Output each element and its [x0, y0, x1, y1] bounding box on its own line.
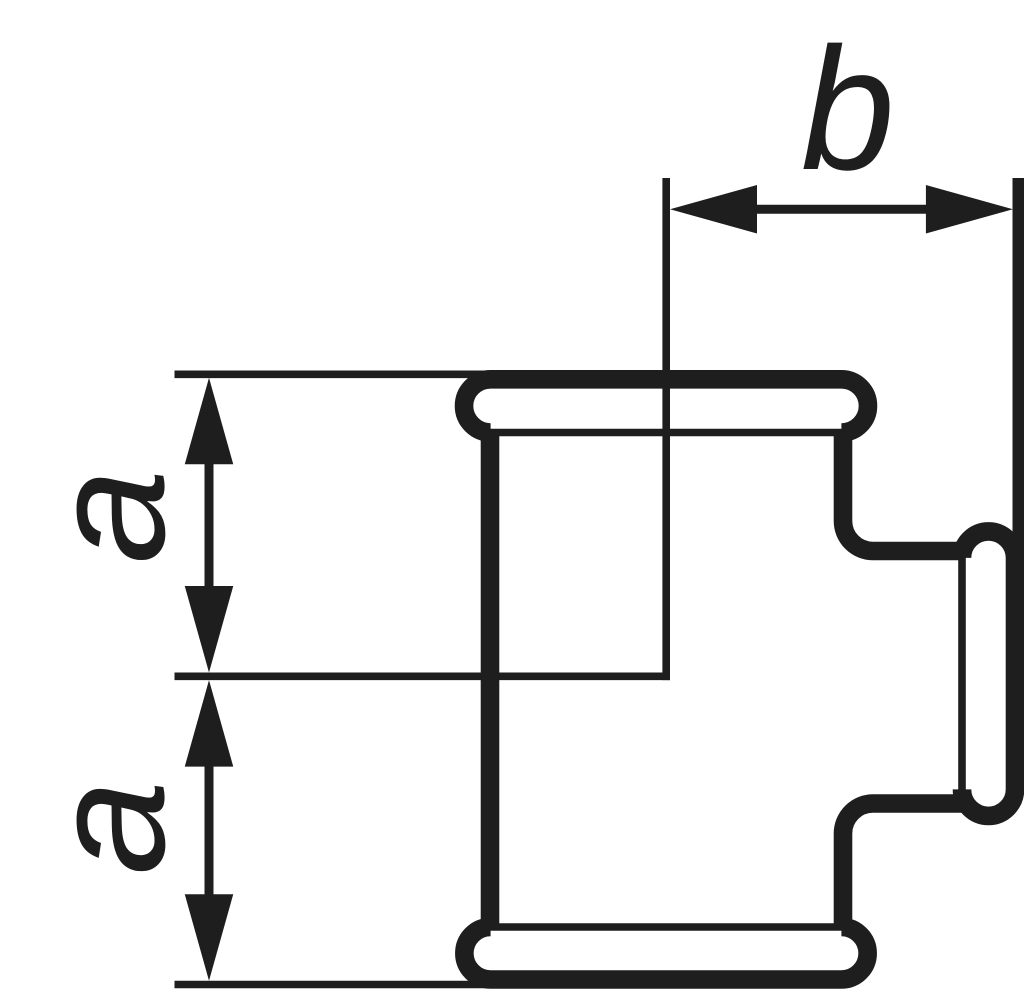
- body left wall (thick): [481, 430, 500, 929]
- bottom socket joint line (thin): [490, 923, 843, 931]
- svg-text:a: a: [18, 780, 199, 875]
- svg-text:a: a: [18, 469, 199, 564]
- extension line b right (vertical, at image edge): [1013, 178, 1024, 560]
- dimension b arrowhead left: [670, 185, 757, 234]
- body right wall upper + branch top wall with fillet (thick): [843, 430, 963, 551]
- extension line top (dimension a upper): [175, 370, 561, 378]
- dimension a1 shaft: [205, 462, 214, 588]
- extension line b left (vertical): [662, 178, 670, 680]
- extension line bottom (dimension a lower): [175, 981, 561, 989]
- extension line middle (dimension a): [175, 672, 671, 680]
- dimension b shaft: [755, 205, 928, 214]
- svg-text:b: b: [801, 12, 895, 206]
- body right wall lower + branch bottom wall with fillet (thick): [843, 804, 963, 930]
- bottom socket bead outline (thick): [464, 927, 867, 980]
- top socket joint line (thin): [490, 429, 843, 437]
- top socket bead outline (thick): [464, 379, 868, 432]
- branch socket bead outline (thick): [962, 531, 1015, 816]
- dimension a2 arrowhead up: [185, 680, 234, 767]
- dimension b arrowhead right: [926, 185, 1013, 234]
- dimension a2 shaft: [205, 764, 214, 896]
- dimension a1 arrowhead up: [185, 378, 234, 465]
- dimension a1 arrowhead down: [185, 586, 234, 673]
- branch socket joint line (thin): [958, 551, 966, 804]
- dimension a2 arrowhead down: [185, 894, 234, 981]
